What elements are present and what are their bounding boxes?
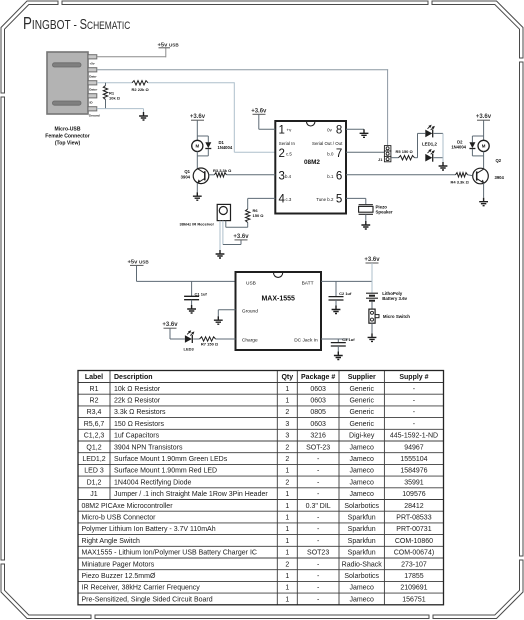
svg-text:3216: 3216 <box>310 433 326 440</box>
svg-text:2: 2 <box>285 409 289 416</box>
svg-text:Jameco: Jameco <box>349 468 374 475</box>
svg-text:Battery 3.6v: Battery 3.6v <box>382 296 407 301</box>
svg-text:38kHz IR Receiver: 38kHz IR Receiver <box>180 221 215 226</box>
svg-text:C3 1uf: C3 1uf <box>342 337 355 342</box>
svg-text:LED 3: LED 3 <box>84 468 104 475</box>
svg-text:Micro Switch: Micro Switch <box>383 314 410 319</box>
svg-text:MAX-1555: MAX-1555 <box>261 296 295 303</box>
svg-text:b.4: b.4 <box>285 174 292 179</box>
svg-text:Digi-key: Digi-key <box>349 433 375 440</box>
svg-text:2: 2 <box>285 479 289 486</box>
svg-text:Jameco: Jameco <box>349 444 374 451</box>
svg-text:1: 1 <box>285 573 289 580</box>
svg-text:08M2: 08M2 <box>304 159 320 166</box>
svg-text:0603: 0603 <box>310 386 326 393</box>
svg-text:Data+: Data+ <box>89 87 98 91</box>
svg-text:Micro-USB: Micro-USB <box>54 127 80 133</box>
svg-text:+3.6v: +3.6v <box>476 114 492 120</box>
svg-text:Miniature Pager Motors: Miniature Pager Motors <box>82 561 155 568</box>
svg-text:109576: 109576 <box>402 491 425 498</box>
svg-text:MAX1555 - Lithium Ion/Polymer: MAX1555 - Lithium Ion/Polymer USB Batter… <box>82 550 257 557</box>
svg-text:08M2 PICAxe Microcontroller: 08M2 PICAxe Microcontroller <box>82 503 174 510</box>
svg-text:150 Ω Resistors: 150 Ω Resistors <box>114 421 164 428</box>
svg-text:Charge: Charge <box>242 337 258 343</box>
svg-text:2109691: 2109691 <box>400 585 427 592</box>
svg-text:35991: 35991 <box>404 479 424 486</box>
svg-text:SOT-23: SOT-23 <box>306 444 330 451</box>
svg-text:94967: 94967 <box>404 444 424 451</box>
svg-text:3904: 3904 <box>181 175 191 180</box>
svg-text:+3.6v: +3.6v <box>251 108 267 114</box>
svg-text:17855: 17855 <box>404 573 424 580</box>
svg-text:c.5: c.5 <box>286 152 292 157</box>
svg-text:3: 3 <box>285 421 289 428</box>
svg-text:Ground: Ground <box>89 113 100 117</box>
svg-text:3: 3 <box>279 170 285 182</box>
svg-text:+3.6v: +3.6v <box>190 114 206 120</box>
svg-text:Supplier: Supplier <box>348 374 376 381</box>
svg-text:J1: J1 <box>90 491 98 498</box>
svg-text:1uf Capacitors: 1uf Capacitors <box>114 433 160 440</box>
svg-text:Serial In: Serial In <box>279 141 296 146</box>
svg-text:Supply #: Supply # <box>399 374 428 381</box>
svg-text:1555104: 1555104 <box>400 456 427 463</box>
svg-text:156751: 156751 <box>402 596 425 603</box>
svg-text:Serial Out / Out: Serial Out / Out <box>312 141 343 146</box>
svg-text:R3,4: R3,4 <box>87 409 102 416</box>
svg-text:0v: 0v <box>327 127 332 132</box>
svg-text:7: 7 <box>336 148 342 160</box>
svg-text:LED3: LED3 <box>184 346 195 351</box>
svg-text:Q1: Q1 <box>184 169 190 174</box>
svg-text:USB: USB <box>246 281 256 287</box>
svg-text:Solarbotics: Solarbotics <box>344 503 379 510</box>
svg-text:J1: J1 <box>378 157 383 162</box>
svg-text:PRT-08533: PRT-08533 <box>396 515 431 522</box>
svg-text:22k Ω Resistor: 22k Ω Resistor <box>114 398 161 405</box>
svg-text:Jumper / .1 inch Straight Male: Jumper / .1 inch Straight Male 1Row 3Pin… <box>114 491 268 498</box>
svg-text:BATT: BATT <box>302 281 314 287</box>
svg-text:Micro-b USB Connector: Micro-b USB Connector <box>82 515 157 522</box>
svg-text:Pre-Sensitized, Single Sided C: Pre-Sensitized, Single Sided Circuit Boa… <box>82 596 213 603</box>
svg-text:1: 1 <box>285 538 289 545</box>
svg-text:Surface Mount 1.90mm Green LED: Surface Mount 1.90mm Green LEDs <box>114 456 228 463</box>
svg-text:C2 1uf: C2 1uf <box>339 291 352 296</box>
svg-text:3904 NPN Transistors: 3904 NPN Transistors <box>114 444 183 451</box>
svg-text:Generic: Generic <box>349 421 374 428</box>
svg-text:Speaker: Speaker <box>376 210 393 215</box>
svg-text:0603: 0603 <box>310 398 326 405</box>
svg-text:b.1: b.1 <box>327 174 334 179</box>
svg-text:0805: 0805 <box>310 409 326 416</box>
svg-text:Description: Description <box>114 374 153 381</box>
svg-text:LithoPoly: LithoPoly <box>382 291 403 296</box>
svg-text:R7 150 Ω: R7 150 Ω <box>201 341 219 346</box>
svg-text:1N4004: 1N4004 <box>451 145 466 150</box>
svg-text:Qty: Qty <box>281 374 293 381</box>
svg-text:Sparkfun: Sparkfun <box>348 538 376 545</box>
svg-text:8: 8 <box>336 124 342 136</box>
svg-text:+3.6v: +3.6v <box>364 257 380 263</box>
svg-text:4: 4 <box>279 194 286 206</box>
svg-text:COM-10860: COM-10860 <box>395 538 433 545</box>
svg-text:5: 5 <box>336 194 342 206</box>
svg-text:Jameco: Jameco <box>349 585 374 592</box>
svg-text:R2 22k Ω: R2 22k Ω <box>132 87 150 92</box>
svg-text:Surface Mount 1.90mm Red LED: Surface Mount 1.90mm Red LED <box>114 468 217 475</box>
svg-text:Sparkfun: Sparkfun <box>348 515 376 522</box>
svg-text:6: 6 <box>336 170 342 182</box>
svg-text:R5,6,7: R5,6,7 <box>84 421 105 428</box>
svg-text:Piezo Buzzer 12.5mmØ: Piezo Buzzer 12.5mmØ <box>82 573 156 580</box>
svg-text:b.0: b.0 <box>327 152 334 157</box>
svg-text:+5v: +5v <box>90 61 95 65</box>
svg-text:Generic: Generic <box>349 409 374 416</box>
svg-text:Data-: Data- <box>89 74 97 78</box>
svg-text:273-107: 273-107 <box>401 561 427 568</box>
svg-text:3.3k Ω Resistors: 3.3k Ω Resistors <box>114 409 166 416</box>
svg-text:1584976: 1584976 <box>400 468 427 475</box>
svg-text:Tune b.2: Tune b.2 <box>316 197 334 202</box>
svg-text:1N4004 Rectifying Diode: 1N4004 Rectifying Diode <box>114 479 192 486</box>
svg-text:1: 1 <box>285 596 289 603</box>
svg-text:1: 1 <box>285 515 289 522</box>
svg-text:2: 2 <box>285 456 289 463</box>
svg-text:Package #: Package # <box>301 374 335 381</box>
svg-text:Q2: Q2 <box>496 158 502 163</box>
svg-text:2: 2 <box>285 444 289 451</box>
svg-text:1: 1 <box>285 526 289 533</box>
svg-text:R4 3.3k Ω: R4 3.3k Ω <box>451 180 470 185</box>
svg-text:1: 1 <box>285 468 289 475</box>
svg-text:R3 3.3k Ω: R3 3.3k Ω <box>213 168 232 173</box>
svg-text:1: 1 <box>285 550 289 557</box>
svg-text:Sparkfun: Sparkfun <box>348 550 376 557</box>
svg-text:Jameco: Jameco <box>349 491 374 498</box>
svg-text:0603: 0603 <box>310 421 326 428</box>
svg-text:LED1,2: LED1,2 <box>82 456 105 463</box>
svg-text:Sparkfun: Sparkfun <box>348 526 376 533</box>
svg-text:R1: R1 <box>90 386 99 393</box>
svg-text:1: 1 <box>279 124 285 136</box>
svg-text:+3.6v: +3.6v <box>233 234 249 240</box>
svg-text:Jameco: Jameco <box>349 456 374 463</box>
svg-text:1N4004: 1N4004 <box>218 145 233 150</box>
svg-text:1: 1 <box>285 585 289 592</box>
svg-text:10k Ω Resistor: 10k Ω Resistor <box>114 386 161 393</box>
svg-text:Ground: Ground <box>242 309 258 315</box>
svg-text:C1,2,3: C1,2,3 <box>84 433 105 440</box>
svg-text:SOT23: SOT23 <box>307 550 329 557</box>
svg-text:Generic: Generic <box>349 398 374 405</box>
svg-text:28412: 28412 <box>404 503 424 510</box>
svg-text:0.3" DIL: 0.3" DIL <box>306 503 331 510</box>
svg-text:Female Connector: Female Connector <box>45 134 89 140</box>
svg-text:IR Receiver, 38kHz Carrier Fre: IR Receiver, 38kHz Carrier Frequency <box>82 585 201 592</box>
svg-text:1: 1 <box>285 491 289 498</box>
svg-text:3: 3 <box>285 433 289 440</box>
svg-text:(Top View): (Top View) <box>55 141 81 147</box>
svg-text:Label: Label <box>85 374 103 381</box>
svg-text:150 Ω: 150 Ω <box>253 213 265 218</box>
svg-text:LED1,2: LED1,2 <box>422 141 437 146</box>
svg-text:445-1592-1-ND: 445-1592-1-ND <box>390 433 438 440</box>
svg-text:+3.6v: +3.6v <box>162 322 178 328</box>
svg-text:D1,2: D1,2 <box>87 479 102 486</box>
svg-text:COM-00674): COM-00674) <box>394 550 434 557</box>
svg-text:M: M <box>195 144 199 149</box>
svg-text:R2: R2 <box>90 398 99 405</box>
svg-text:R5 150 Ω: R5 150 Ω <box>396 149 414 154</box>
svg-text:PRT-00731: PRT-00731 <box>396 526 431 533</box>
svg-text:3904: 3904 <box>495 175 505 180</box>
svg-text:Jameco: Jameco <box>349 596 374 603</box>
svg-text:1: 1 <box>285 398 289 405</box>
svg-text:c.3: c.3 <box>286 197 292 202</box>
svg-text:Jameco: Jameco <box>349 479 374 486</box>
svg-text:Q1,2: Q1,2 <box>86 444 101 451</box>
svg-text:1: 1 <box>285 503 289 510</box>
svg-text:DC Jack In: DC Jack In <box>294 337 318 343</box>
svg-text:1: 1 <box>285 386 289 393</box>
svg-text:10k Ω: 10k Ω <box>109 96 121 101</box>
svg-text:Polymer Lithium Ion Battery -: Polymer Lithium Ion Battery - 3.7V 110mA… <box>82 526 216 533</box>
svg-text:Right Angle Switch: Right Angle Switch <box>82 538 140 545</box>
svg-text:2: 2 <box>279 148 285 160</box>
svg-text:Radio-Shack: Radio-Shack <box>342 561 383 568</box>
svg-text:2: 2 <box>285 561 289 568</box>
svg-text:Solarbotics: Solarbotics <box>344 573 379 580</box>
svg-text:+v: +v <box>287 127 293 132</box>
svg-text:C1 1uf: C1 1uf <box>195 292 208 297</box>
svg-text:M: M <box>482 144 486 149</box>
svg-text:Generic: Generic <box>349 386 374 393</box>
